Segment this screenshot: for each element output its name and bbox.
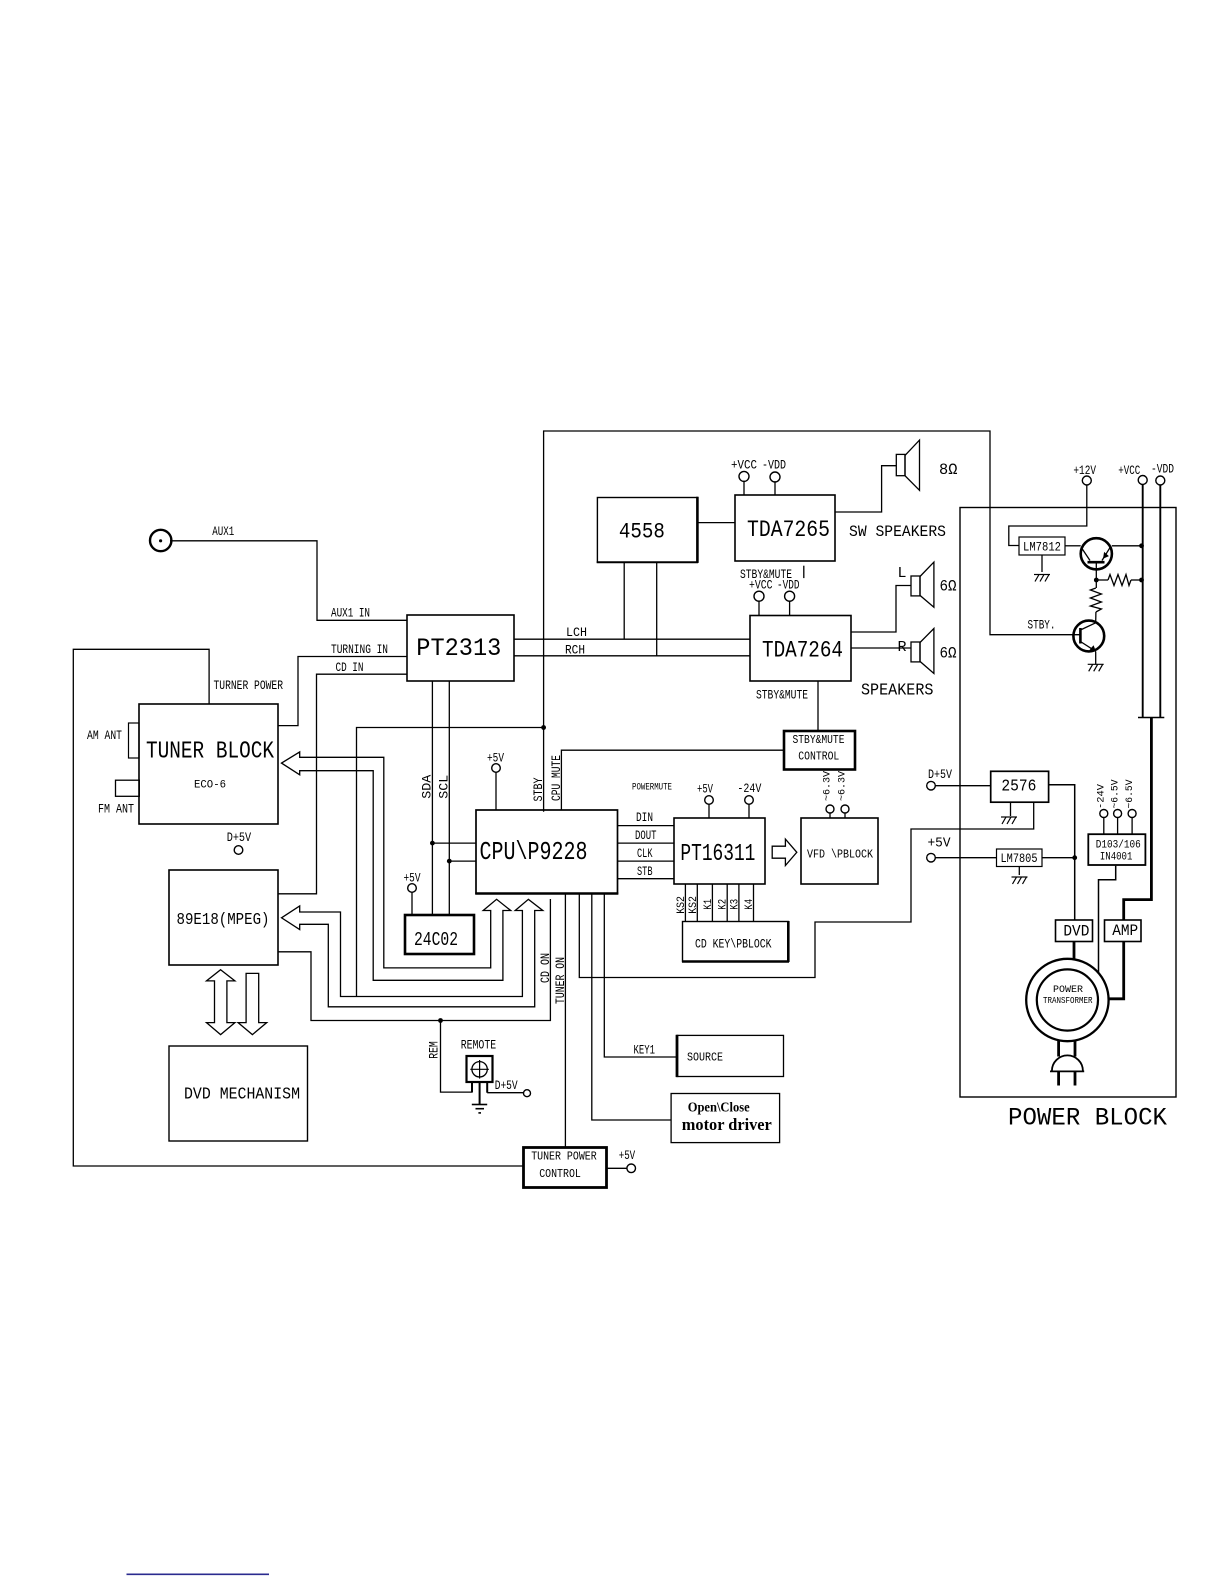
- svg-text:CD IN: CD IN: [336, 661, 364, 675]
- svg-text:~6.3V: ~6.3V: [822, 770, 834, 801]
- svg-text:AUX1 IN: AUX1 IN: [331, 607, 370, 621]
- svg-text:D+5V: D+5V: [928, 768, 952, 782]
- svg-text:R: R: [898, 639, 907, 656]
- svg-text:DVD: DVD: [1063, 922, 1089, 940]
- svg-text:LM7812: LM7812: [1023, 540, 1061, 555]
- svg-text:AM ANT: AM ANT: [87, 729, 122, 743]
- svg-text:LCH: LCH: [566, 626, 587, 640]
- svg-text:STBY: STBY: [532, 777, 546, 801]
- svg-text:LM7805: LM7805: [1001, 851, 1038, 866]
- svg-text:+5V: +5V: [404, 871, 421, 885]
- svg-text:-VDD: -VDD: [762, 459, 786, 473]
- svg-text:+VCC: +VCC: [1118, 464, 1140, 478]
- svg-text:~6.3V: ~6.3V: [837, 770, 849, 801]
- svg-text:TURNING IN: TURNING IN: [331, 643, 388, 657]
- svg-text:24C02: 24C02: [414, 929, 458, 951]
- svg-text:CPU\P9228: CPU\P9228: [480, 837, 588, 867]
- svg-text:K4: K4: [744, 899, 756, 910]
- svg-text:KS2: KS2: [676, 896, 688, 914]
- svg-text:DOUT: DOUT: [635, 829, 657, 843]
- svg-text:PT16311: PT16311: [680, 841, 755, 868]
- svg-text:REMOTE: REMOTE: [461, 1038, 497, 1052]
- svg-text:K2: K2: [718, 899, 730, 910]
- svg-text:TDA7265: TDA7265: [747, 517, 830, 543]
- svg-text:KEY1: KEY1: [634, 1043, 656, 1057]
- svg-text:-VDD: -VDD: [1151, 463, 1174, 477]
- svg-text:D+5V: D+5V: [495, 1079, 518, 1093]
- svg-text:+VCC: +VCC: [731, 459, 757, 473]
- svg-text:CLK: CLK: [637, 847, 653, 861]
- svg-text:TUNER BLOCK: TUNER BLOCK: [146, 739, 274, 766]
- svg-text:STBY.: STBY.: [1028, 618, 1056, 632]
- svg-text:~6.5V: ~6.5V: [1124, 779, 1136, 809]
- svg-text:+5V: +5V: [619, 1149, 636, 1163]
- svg-text:SCL: SCL: [438, 775, 452, 799]
- svg-text:+5V: +5V: [487, 751, 504, 765]
- svg-text:STBY&MUTE: STBY&MUTE: [793, 734, 845, 747]
- svg-text:L: L: [898, 565, 907, 582]
- svg-text:+VCC: +VCC: [749, 578, 773, 592]
- svg-text:+5V: +5V: [928, 836, 952, 852]
- svg-text:STB: STB: [637, 865, 653, 879]
- svg-text:AMP: AMP: [1112, 922, 1138, 940]
- svg-text:6Ω: 6Ω: [940, 578, 957, 596]
- svg-text:SW SPEAKERS: SW SPEAKERS: [849, 523, 946, 541]
- svg-text:-24V: -24V: [1096, 783, 1108, 809]
- svg-text:VFD \PBLOCK: VFD \PBLOCK: [807, 848, 874, 862]
- svg-text:-VDD: -VDD: [777, 578, 800, 592]
- svg-text:PT2313: PT2313: [416, 634, 501, 663]
- svg-text:D+5V: D+5V: [227, 831, 252, 845]
- svg-text:TUNER POWER: TUNER POWER: [531, 1150, 597, 1163]
- svg-text:Open\Close: Open\Close: [688, 1099, 750, 1114]
- svg-text:POWER: POWER: [1053, 985, 1083, 996]
- svg-text:RCH: RCH: [565, 644, 585, 658]
- svg-text:SOURCE: SOURCE: [687, 1051, 723, 1064]
- svg-text:KS2: KS2: [688, 896, 700, 914]
- svg-text:CONTROL: CONTROL: [798, 751, 839, 764]
- svg-text:~6.5V: ~6.5V: [1110, 779, 1122, 809]
- svg-text:DIN: DIN: [636, 811, 653, 825]
- svg-text:+12V: +12V: [1073, 464, 1096, 478]
- svg-text:TURNER POWER: TURNER POWER: [214, 679, 284, 693]
- svg-text:K3: K3: [729, 899, 741, 910]
- svg-text:AUX1: AUX1: [212, 525, 234, 539]
- svg-text:-24V: -24V: [737, 782, 761, 796]
- svg-text:CD ON: CD ON: [539, 953, 553, 983]
- svg-text:CD KEY\PBLOCK: CD KEY\PBLOCK: [695, 937, 772, 952]
- svg-text:SPEAKERS: SPEAKERS: [861, 682, 934, 701]
- svg-text:K1: K1: [703, 899, 715, 910]
- svg-text:FM ANT: FM ANT: [98, 802, 134, 816]
- svg-text:D103/106: D103/106: [1096, 840, 1141, 852]
- svg-text:2576: 2576: [1001, 777, 1036, 796]
- svg-text:4558: 4558: [619, 520, 665, 545]
- svg-text:motor driver: motor driver: [682, 1115, 772, 1134]
- svg-text:8Ω: 8Ω: [939, 461, 958, 479]
- svg-text:POWER BLOCK: POWER BLOCK: [1008, 1104, 1167, 1133]
- svg-text:POWERMUTE: POWERMUTE: [632, 782, 672, 794]
- svg-text:DVD MECHANISM: DVD MECHANISM: [184, 1085, 300, 1104]
- svg-text:TRANSFORMER: TRANSFORMER: [1043, 996, 1093, 1006]
- svg-text:STBY&MUTE: STBY&MUTE: [756, 688, 808, 702]
- svg-text:SDA: SDA: [421, 774, 435, 799]
- svg-text:IN4001: IN4001: [1100, 852, 1133, 864]
- svg-text:ECO-6: ECO-6: [194, 780, 226, 792]
- svg-text:89E18(MPEG): 89E18(MPEG): [177, 910, 270, 929]
- svg-text:TUNER ON: TUNER ON: [554, 957, 568, 1004]
- svg-text:CONTROL: CONTROL: [539, 1168, 581, 1181]
- svg-text:6Ω: 6Ω: [940, 645, 957, 663]
- svg-text:CPU MUTE: CPU MUTE: [550, 755, 564, 801]
- svg-text:REM: REM: [428, 1041, 442, 1059]
- svg-text:TDA7264: TDA7264: [762, 638, 843, 664]
- svg-text:+5V: +5V: [697, 783, 713, 797]
